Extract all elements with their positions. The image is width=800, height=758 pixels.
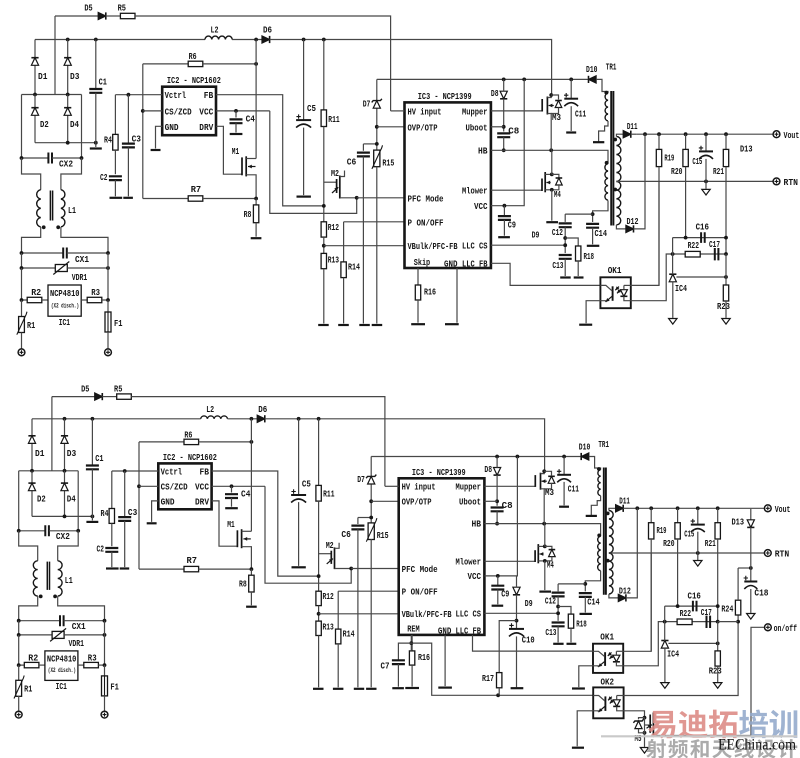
wire R18 hook — [565, 238, 578, 246]
wire C9 top lead (lower) — [497, 576, 499, 586]
svg-text:IC4: IC4 — [675, 284, 687, 294]
wire L1 top-left lead (lower) — [19, 531, 38, 561]
watermark gray char 0 — [646, 739, 666, 758]
wire D8 to Uboot — [503, 99, 505, 132]
svg-text:DRV: DRV — [199, 123, 214, 133]
wire D12 to Vout col — [634, 134, 646, 229]
svg-text:R13: R13 — [323, 623, 334, 633]
wire primary bottom step — [599, 121, 608, 142]
svg-text:C16: C16 — [696, 223, 709, 233]
svg-text:C6: C6 — [347, 158, 357, 168]
junction C8-HB — [502, 148, 506, 152]
polarity dot TR1 primary — [604, 91, 608, 95]
terminator bar C13 (lower) — [553, 643, 563, 645]
ground bar C3 — [123, 197, 133, 199]
junction VCC-C9 (lower) — [496, 574, 500, 578]
svg-text:OVP/OTP: OVP/OTP — [402, 498, 432, 508]
transformer TR1 aux winding (lower) — [598, 536, 601, 571]
optocoupler OK2 LED top wire — [617, 695, 624, 697]
transistor M5 body arrow — [647, 725, 652, 729]
svg-text:P ON/OFF: P ON/OFF — [402, 588, 438, 598]
resistor R5 — [120, 13, 135, 18]
wire C15 top lead — [705, 134, 707, 151]
junction C12-CS (lower) — [556, 611, 560, 615]
svg-text:VCC: VCC — [474, 202, 488, 212]
junction FB-M2col — [322, 204, 326, 208]
wire R15 bottom lead — [376, 167, 378, 324]
wire D2 column (lower) — [31, 471, 33, 517]
ground bar R13 (lower) — [313, 688, 324, 690]
junction D9-R17 row — [515, 619, 519, 623]
svg-text:C13: C13 — [552, 261, 563, 271]
wire D2 column — [34, 95, 36, 143]
junction R12-R13 — [322, 244, 326, 248]
svg-text:C1: C1 — [95, 454, 104, 464]
svg-text:C5: C5 — [302, 480, 311, 490]
inductor L2 (lower) — [201, 416, 228, 419]
watermark separator line — [601, 735, 797, 737]
wire Skip to R16 (lower) — [411, 635, 413, 651]
wire R6 row right — [203, 63, 256, 65]
wire DRV route — [216, 126, 242, 174]
svg-text:TR1: TR1 — [598, 440, 609, 450]
shunt reference IC4 (lower) — [661, 641, 668, 649]
wire IC4 bottom lead (lower) — [664, 648, 666, 682]
wire R6 row right (lower) — [198, 441, 251, 443]
resistor R2 — [27, 297, 42, 302]
terminal line input N — [105, 349, 112, 356]
svg-text:C4: C4 — [241, 489, 251, 499]
svg-text:R21: R21 — [713, 167, 724, 177]
inductor L2 — [205, 36, 232, 39]
wire R11 to R12 — [323, 127, 325, 222]
wire HB to M4 drain — [551, 150, 553, 174]
ground bar IC2 (lower) — [147, 522, 157, 524]
svg-text:IC2 - NCP1602: IC2 - NCP1602 — [163, 453, 217, 463]
wire GND column ic3 — [456, 268, 458, 323]
diode D1 (lower) — [28, 436, 35, 444]
svg-text:D9: D9 — [525, 599, 533, 609]
junction W2-C5 — [302, 38, 306, 42]
svg-text:D3: D3 — [70, 72, 80, 82]
wire C6 top hook (lower) — [358, 517, 371, 519]
transformer TR1 primary winding (lower) — [598, 470, 601, 496]
junction R15-C6 (lower) — [369, 516, 373, 520]
junction R15-C6 — [375, 142, 379, 146]
transistor M2 source lead — [340, 197, 357, 199]
svg-text:R8: R8 — [244, 210, 252, 220]
wire R1 to terminal — [21, 333, 23, 350]
wire R4 to C2 (lower) — [111, 523, 113, 546]
diode D5 (lower) — [95, 393, 103, 400]
wire R20 column (lower) — [677, 508, 679, 522]
junction rail-D8 — [502, 78, 506, 82]
svg-text:LLC FB: LLC FB — [462, 260, 488, 270]
wire R13 bottom lead — [323, 269, 325, 324]
ground bar R16 — [411, 323, 425, 325]
svg-text:F1: F1 — [110, 683, 119, 693]
junction W2-R11 — [322, 38, 326, 42]
wire R21 column — [725, 134, 727, 149]
transistor M1 drain lead — [246, 158, 256, 160]
optocoupler OK1 emitter wire (lower) — [593, 666, 598, 667]
wire VDR row right — [67, 267, 108, 269]
wire primary bottom step (lower) — [591, 496, 600, 516]
wire bridge bottom row — [35, 142, 96, 144]
wire VDR row left (lower) — [19, 621, 53, 635]
transistor M1 channel — [245, 156, 247, 176]
svg-text:IC1: IC1 — [56, 682, 68, 692]
svg-text:R1: R1 — [27, 321, 36, 331]
optocoupler OK2 LED — [613, 700, 620, 707]
svg-text:R24: R24 — [721, 604, 733, 614]
svg-text:FB: FB — [200, 467, 210, 477]
wire C15 top lead (lower) — [697, 508, 699, 524]
wire OK2 emitter route — [577, 711, 593, 746]
resistor R21 (lower) — [715, 523, 720, 539]
capacitor C12 — [559, 223, 572, 227]
junction R22-R21col — [724, 252, 728, 256]
capacitor C13 (lower) — [552, 623, 565, 627]
polarity dot TR1 aux (lower) — [597, 534, 601, 538]
junction C16-R21col (lower) — [716, 604, 720, 608]
optocoupler OK2 box — [593, 687, 623, 718]
varistor VDR1 — [55, 265, 67, 272]
wire FB route — [216, 95, 324, 206]
transistor M4 drain lead (lower) — [538, 545, 545, 547]
wire R7 row right (lower) — [198, 568, 251, 570]
wire C12 top lead — [564, 214, 566, 222]
transistor M2 channel — [339, 176, 341, 199]
polarity dot L1 right — [56, 225, 60, 229]
wire C6 lead (lower) — [357, 518, 359, 525]
wire OVP row (lower) — [371, 500, 399, 502]
junction D4-bottom — [66, 141, 70, 145]
svg-text:C17: C17 — [709, 240, 720, 250]
svg-text:R4: R4 — [101, 509, 109, 519]
wire M1 drain column — [255, 40, 257, 159]
optocoupler OK2 transistor bar — [604, 696, 606, 711]
wire R17 bottom lead — [498, 688, 500, 696]
wire Mupper pin (lower) — [484, 485, 535, 487]
junction CSZCD (lower) — [137, 484, 141, 488]
transformer TR1 core (lower) — [603, 468, 605, 595]
wire VCC pin to C4 — [216, 110, 270, 112]
resistor R4 (lower) — [109, 509, 114, 524]
choke L1 core (lower) — [46, 562, 48, 590]
transistor M2 channel (lower) — [334, 547, 336, 569]
svg-text:L2: L2 — [211, 26, 219, 36]
junction M4 drain — [550, 173, 554, 177]
svg-text:C1: C1 — [99, 77, 108, 87]
wire D13 branch — [738, 567, 751, 569]
ground bar R15 (lower) — [366, 688, 376, 690]
wire left leg to R2 — [22, 268, 28, 300]
ground bar GND ic3 — [445, 323, 459, 325]
resistor R4 — [113, 134, 118, 150]
wire CX2 row left — [22, 157, 49, 159]
transistor M2 source lead (lower) — [335, 568, 352, 570]
wire C11 bottom lead — [570, 106, 572, 131]
capacitor C17 (lower) — [707, 616, 711, 628]
resistor R21 — [723, 149, 728, 166]
optocoupler OK2 light arrow 2 — [610, 700, 614, 704]
svg-text:CX1: CX1 — [72, 622, 87, 632]
wire W2 to D6 (lower) — [228, 418, 258, 420]
capacitor C16 — [701, 232, 705, 243]
svg-text:VDR1: VDR1 — [69, 639, 85, 649]
wire R6 row left — [143, 63, 189, 65]
wire C6 top hook — [363, 143, 376, 145]
svg-text:D5: D5 — [84, 4, 92, 14]
optocoupler OK1 LED bottom lead (lower) — [616, 662, 623, 666]
optocoupler OK1 box — [600, 277, 630, 308]
svg-text:Vout: Vout — [784, 131, 800, 141]
svg-text:R15: R15 — [382, 159, 394, 169]
junction D1-D2 (lower) — [30, 469, 34, 473]
svg-text:D10: D10 — [586, 65, 598, 75]
transistor M3 gate bar — [541, 99, 543, 112]
watermark big char 0 — [648, 711, 675, 739]
optocoupler OK2 emitter wire — [593, 711, 598, 712]
transistor M3 source lead — [547, 114, 551, 151]
wire bridge mid row — [22, 94, 82, 96]
terminal line input N (lower) — [101, 711, 108, 718]
svg-text:M3: M3 — [552, 113, 561, 123]
wire C12 top row (lower) — [558, 583, 585, 585]
junction C12-R18 — [563, 236, 567, 240]
wire IC4 top lead — [672, 254, 674, 274]
junction Vout-R20 (lower) — [676, 506, 680, 510]
junction D4-bottom (lower) — [63, 515, 67, 519]
transformer TR1 secondary lower (lower) — [609, 553, 613, 594]
watermark big char 3 — [739, 709, 768, 738]
svg-text:R16: R16 — [418, 653, 430, 663]
junction CX1 right (lower) — [103, 619, 107, 623]
svg-text:on/off: on/off — [774, 624, 797, 634]
wire W1 D5-R5 startup line — [55, 15, 98, 17]
svg-text:Mupper: Mupper — [462, 107, 488, 117]
optocoupler OK1 LED top wire (lower) — [616, 650, 623, 652]
varistor R1 — [19, 317, 25, 333]
wire bulk rail (lower) — [371, 456, 580, 458]
ground bar C3 (lower) — [120, 567, 130, 569]
svg-text:D9: D9 — [532, 231, 540, 241]
wire R1 top lead — [21, 300, 23, 317]
wire R20 column low (lower) — [677, 539, 679, 606]
svg-text:D12: D12 — [627, 217, 639, 227]
terminal RTN — [773, 178, 780, 185]
wire R16 bottom lead — [417, 300, 419, 323]
wire C5 bottom lead (lower) — [298, 502, 300, 566]
junction Vout-R19 (lower) — [649, 506, 653, 510]
wire C6 bottom lead (lower) — [357, 529, 359, 687]
junction Vout-R21 (lower) — [716, 506, 720, 510]
junction aux-C12row (lower) — [583, 582, 587, 586]
transistor M1 source lead (lower) — [242, 547, 252, 569]
resistor R3 — [87, 297, 102, 302]
wire VDR row right leg — [107, 253, 109, 268]
junction rail-C11 — [569, 78, 573, 82]
wire HV pin — [391, 110, 405, 112]
wire VCC pin to C4 (lower) — [212, 485, 265, 487]
junction Vout-D12col — [643, 132, 647, 136]
junction ref-R23 — [724, 275, 728, 279]
capacitor C17 — [715, 248, 719, 260]
ground bar C6 (lower) — [354, 688, 364, 690]
optocoupler OK2 emitter diag — [598, 706, 604, 712]
transistor M1 gate bar (lower) — [236, 530, 238, 547]
diode D2 — [31, 108, 38, 116]
svg-text:R21: R21 — [705, 539, 716, 549]
optocoupler OK1 box (lower) — [593, 644, 623, 673]
wire D1 column (lower) — [31, 419, 33, 471]
junction R12-R13 (lower) — [317, 612, 321, 616]
transistor M4 source lead (lower) — [538, 560, 545, 562]
capacitor C10 polarized — [509, 628, 524, 630]
svg-text:R14: R14 — [348, 263, 360, 273]
wire R23 top lead — [725, 254, 727, 285]
wire D3 column — [67, 40, 69, 95]
svg-text:IC3 - NCP1399: IC3 - NCP1399 — [412, 468, 466, 478]
svg-text:L2: L2 — [206, 405, 214, 415]
ground bar OK2 — [572, 747, 584, 749]
wire D11 out (lower) — [623, 507, 628, 509]
svg-text:R1: R1 — [24, 685, 33, 695]
wire L1 bottom-right lead — [61, 227, 108, 253]
wire GND column ic3 (lower) — [444, 635, 446, 686]
svg-text:R17: R17 — [482, 674, 494, 684]
wire bulk rail — [377, 78, 588, 80]
capacitor C9 (lower) — [491, 586, 504, 590]
wire HB to M4 drain (lower) — [544, 524, 546, 547]
junction rail-D8 (lower) — [495, 455, 499, 459]
svg-text:C2: C2 — [100, 173, 108, 183]
wire R18 bottom lead — [577, 261, 579, 276]
watermark big char 4 — [770, 710, 798, 738]
wire D9 to C10 — [516, 595, 518, 629]
wire L1 bottom-right lead (lower) — [58, 596, 105, 621]
svg-text:Mlower: Mlower — [462, 187, 488, 197]
transistor M4 drain lead — [545, 173, 552, 175]
wire IC4 ref row — [676, 276, 726, 278]
ground bar IC2 — [151, 149, 161, 151]
wire C11 top lead — [570, 79, 572, 98]
svg-text:R14: R14 — [343, 629, 355, 639]
resistor R19 (lower) — [649, 523, 654, 539]
resistor R22 (lower) — [677, 619, 692, 625]
wire C12 top row — [565, 213, 592, 215]
junction Uboot (lower) — [495, 499, 499, 503]
capacitor CX2 — [48, 153, 52, 164]
terminator bar C13 — [560, 276, 571, 278]
ground bar R16 (lower) — [405, 687, 419, 689]
svg-text:LLC CS: LLC CS — [456, 610, 482, 620]
svg-text:R19: R19 — [664, 154, 674, 164]
wire C3 top lead (lower) — [124, 471, 126, 517]
svg-text:R11: R11 — [323, 490, 335, 500]
wire M2 gate tap — [324, 181, 337, 183]
junction CX2 right — [80, 156, 84, 160]
wire zener bottom hook — [639, 729, 645, 733]
wire VCC column — [491, 79, 524, 205]
svg-text:D7: D7 — [363, 99, 371, 109]
polarity dot sec upper (lower) — [606, 512, 610, 516]
optocoupler OK1 emitter diag (lower) — [598, 662, 604, 667]
svg-text:D11: D11 — [619, 497, 630, 507]
wire R13 bottom lead (lower) — [318, 636, 320, 688]
wire W1 to HV corner (lower) — [131, 397, 385, 487]
junction rail-C11 (lower) — [562, 455, 566, 459]
svg-text:M4: M4 — [547, 561, 554, 571]
capacitor C5 polarized — [296, 119, 311, 121]
junction M4 source (lower) — [543, 559, 547, 563]
terminator bar primary — [593, 141, 604, 143]
svg-text:VCC: VCC — [468, 572, 482, 582]
wire M2 gate tap (lower) — [319, 553, 332, 555]
wire R7 row left — [143, 198, 189, 200]
svg-text:VCC: VCC — [195, 483, 210, 493]
svg-text:M4: M4 — [554, 190, 561, 200]
wire bridge right leg (lower) — [77, 471, 79, 531]
wire L1 top-right lead — [61, 158, 82, 190]
fuse F1 — [105, 312, 111, 332]
wire R14 top lead (lower) — [337, 591, 339, 629]
wire R2 to IC1 (lower) — [39, 664, 45, 666]
polarity dot L1 right (lower) — [53, 595, 57, 599]
wire C5 top lead — [303, 40, 305, 121]
svg-text:OK1: OK1 — [600, 633, 614, 643]
wire R14 top lead — [343, 222, 345, 262]
svg-text:D2: D2 — [40, 120, 49, 130]
junction R3 right — [106, 298, 110, 302]
transistor M2 gate bar (lower) — [330, 551, 332, 564]
polarity dot sec lower (lower) — [606, 559, 610, 563]
wire F1 top lead (lower) — [104, 665, 106, 676]
wire C4 top lead (lower) — [231, 486, 233, 492]
resistor R8 (lower) — [249, 575, 254, 592]
wire R12-R13 (lower) — [318, 606, 320, 622]
choke L1 core 2 — [52, 191, 54, 221]
wire R7 row right — [203, 198, 256, 200]
wire L1 bottom-left lead — [22, 227, 41, 253]
junction rail-VCCcol — [522, 78, 526, 82]
optocoupler OK1 light arrow 2 (lower) — [610, 655, 614, 658]
wire left leg to R2 (lower) — [19, 635, 25, 665]
svg-text:R22: R22 — [680, 609, 691, 619]
IC U IC3 NCP1399 box — [405, 102, 491, 268]
resistor R20 (lower) — [675, 523, 680, 539]
optocoupler OK1 light arrow 1 (lower) — [608, 652, 612, 656]
svg-text:D13: D13 — [740, 145, 753, 155]
junction D13-C18 — [749, 566, 753, 570]
junction R7-R8 (lower) — [250, 567, 254, 571]
watermark gray char 4 — [734, 739, 753, 758]
junction HB-M3 (lower) — [542, 522, 546, 526]
transistor M4 gate bar — [541, 179, 543, 192]
junction aux-C12row — [591, 212, 595, 216]
junction R3 right (lower) — [103, 663, 107, 667]
choke L1 right winding (lower) — [58, 561, 62, 596]
ground bar R8 — [251, 237, 262, 239]
capacitor CX2 (lower) — [45, 525, 49, 536]
svg-text:R11: R11 — [328, 115, 340, 125]
junction D7-OVP (lower) — [369, 499, 373, 503]
wire CS/ZCD pin — [143, 110, 162, 112]
svg-text:Vout: Vout — [775, 505, 791, 515]
svg-text:VCC: VCC — [199, 107, 214, 117]
ground bar OK1 — [579, 324, 592, 326]
